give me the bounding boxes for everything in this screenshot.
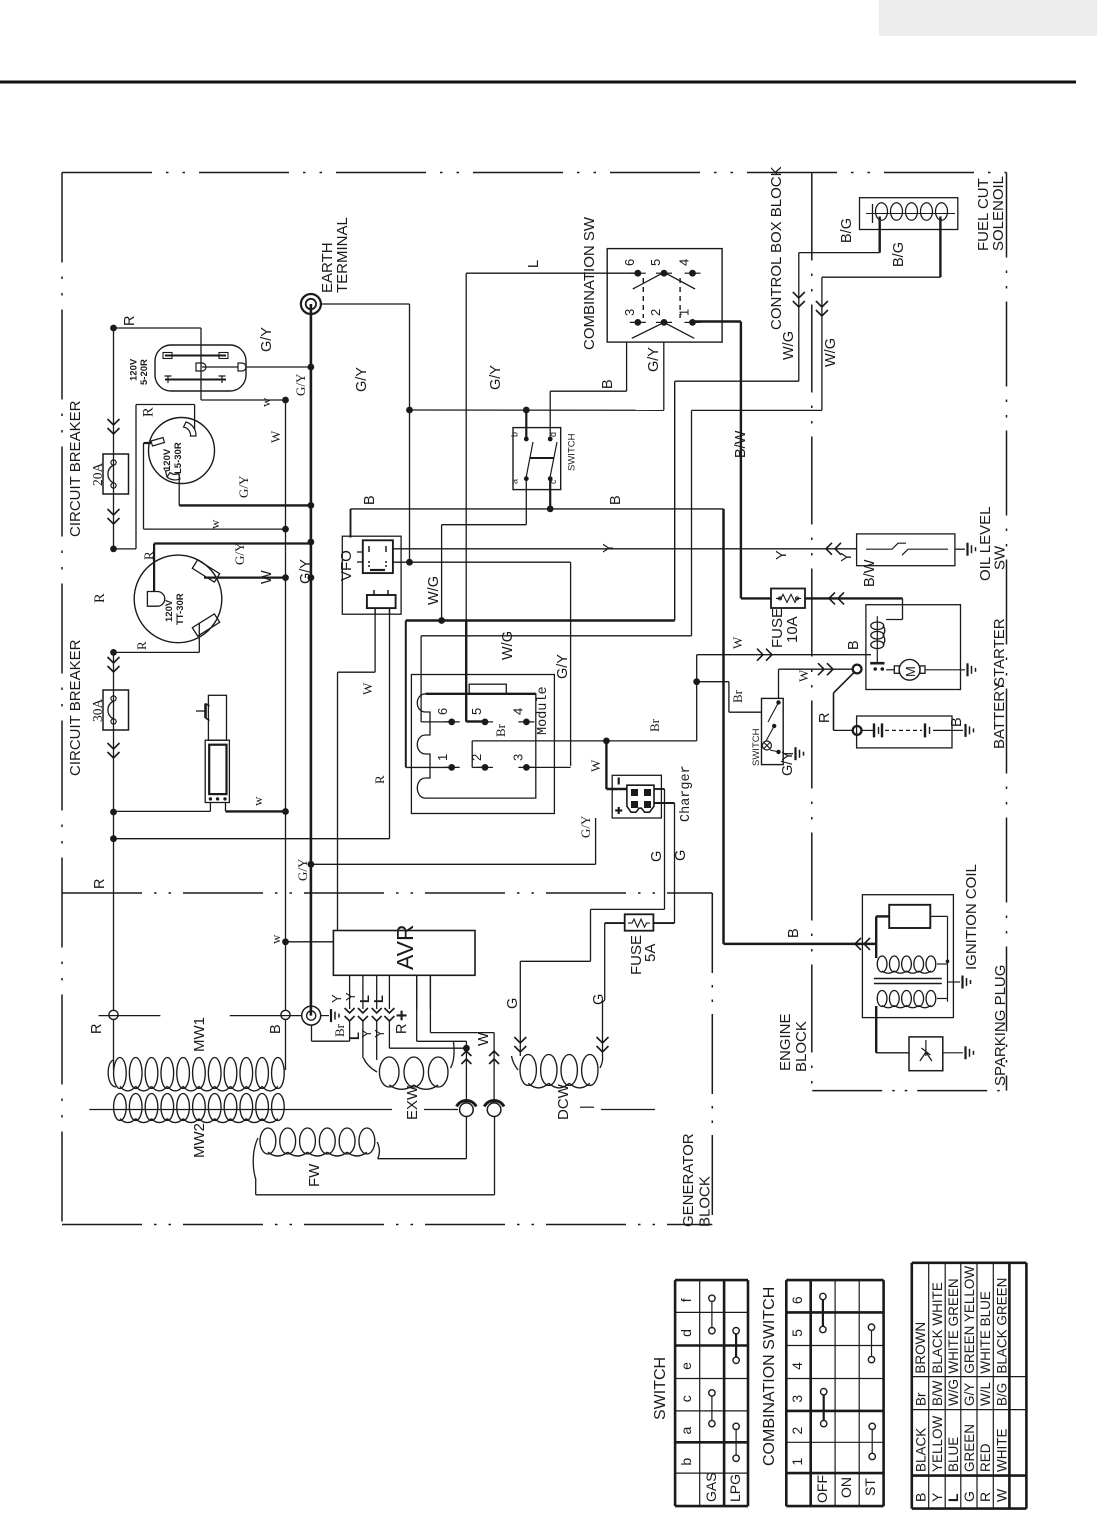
svg-text:G/Y: G/Y: [293, 373, 308, 396]
svg-text:10A: 10A: [784, 616, 801, 643]
svg-text:6: 6: [622, 259, 637, 266]
svg-text:IGNITION COIL: IGNITION COIL: [963, 864, 980, 970]
svg-text:L5-30R: L5-30R: [173, 442, 184, 474]
svg-text:BLUE: BLUE: [946, 1437, 961, 1472]
svg-text:W: W: [476, 1032, 492, 1046]
svg-text:G/Y: G/Y: [646, 347, 662, 372]
svg-text:B: B: [608, 495, 624, 505]
svg-text:Module: Module: [536, 686, 551, 735]
svg-text:W: W: [730, 636, 745, 649]
svg-text:B: B: [268, 1024, 284, 1034]
svg-text:L: L: [945, 1493, 961, 1502]
svg-text:4: 4: [511, 708, 526, 715]
svg-text:b: b: [510, 432, 520, 437]
svg-text:G/Y: G/Y: [488, 365, 504, 390]
svg-text:G: G: [673, 850, 689, 861]
svg-text:DCW: DCW: [555, 1083, 572, 1120]
svg-text:e: e: [678, 1362, 694, 1370]
svg-text:w: w: [207, 519, 222, 529]
svg-text:ON: ON: [838, 1477, 854, 1498]
svg-text:G/Y: G/Y: [962, 1383, 977, 1406]
svg-text:SPARKING PLUG: SPARKING PLUG: [992, 965, 1009, 1086]
svg-text:CONTROL BOX BLOCK: CONTROL BOX BLOCK: [768, 166, 785, 330]
svg-text:Br: Br: [493, 723, 508, 737]
svg-text:a: a: [510, 479, 520, 484]
svg-text:RED: RED: [978, 1443, 993, 1472]
svg-text:WHITE BLUE: WHITE BLUE: [978, 1291, 993, 1374]
svg-text:BROWN: BROWN: [913, 1322, 928, 1374]
svg-text:Y: Y: [774, 550, 790, 560]
svg-text:BLOCK: BLOCK: [793, 1021, 810, 1072]
svg-text:SWITCH: SWITCH: [567, 433, 578, 471]
svg-text:6: 6: [435, 708, 450, 715]
svg-text:120V: 120V: [164, 599, 175, 622]
svg-text:w: w: [258, 397, 273, 407]
svg-text:5-20R: 5-20R: [139, 359, 150, 385]
svg-text:R: R: [394, 1024, 410, 1034]
svg-text:R: R: [372, 775, 387, 784]
svg-text:120V: 120V: [129, 358, 140, 381]
svg-text:B: B: [362, 495, 378, 505]
svg-text:B/G: B/G: [891, 242, 907, 267]
svg-text:G: G: [505, 998, 521, 1009]
svg-text:B/W: B/W: [930, 1380, 945, 1406]
svg-text:4: 4: [789, 1362, 805, 1370]
svg-text:f: f: [678, 1298, 694, 1302]
svg-text:30A: 30A: [90, 699, 105, 723]
svg-text:1: 1: [677, 309, 692, 316]
svg-text:B: B: [600, 379, 616, 389]
svg-text:WHITE GREEN: WHITE GREEN: [946, 1278, 961, 1373]
svg-text:B/G: B/G: [839, 218, 855, 243]
svg-text:w: w: [250, 796, 265, 806]
svg-text:BLACK GREEN: BLACK GREEN: [994, 1278, 1009, 1374]
svg-text:Br: Br: [332, 1023, 347, 1037]
svg-text:5A: 5A: [642, 944, 659, 962]
svg-text:Y: Y: [929, 1492, 945, 1502]
svg-text:R: R: [92, 879, 108, 889]
svg-text:ST: ST: [862, 1478, 878, 1496]
svg-text:COMBINATION SW: COMBINATION SW: [581, 216, 598, 350]
svg-text:20A: 20A: [90, 463, 105, 487]
svg-text:W: W: [796, 669, 811, 682]
svg-text:EXW: EXW: [404, 1085, 421, 1120]
svg-text:G/Y: G/Y: [236, 475, 251, 498]
svg-text:G: G: [649, 851, 665, 862]
svg-text:Y: Y: [839, 552, 855, 562]
svg-text:Y: Y: [601, 543, 617, 553]
svg-text:STARTER: STARTER: [991, 618, 1008, 687]
svg-text:OFF: OFF: [814, 1475, 830, 1503]
svg-text:R: R: [141, 407, 157, 417]
svg-text:WHITE: WHITE: [994, 1429, 1009, 1473]
svg-text:R: R: [817, 713, 833, 723]
svg-text:BLACK WHITE: BLACK WHITE: [930, 1282, 945, 1374]
svg-text:W/G: W/G: [781, 331, 797, 360]
svg-text:B: B: [912, 1493, 928, 1502]
svg-text:Br: Br: [647, 718, 662, 732]
svg-text:L: L: [371, 995, 386, 1003]
svg-text:COMBINATION SWITCH: COMBINATION SWITCH: [761, 1287, 778, 1466]
svg-text:AVR: AVR: [392, 924, 418, 970]
svg-text:R: R: [977, 1492, 993, 1502]
svg-text:W: W: [993, 1488, 1009, 1502]
svg-text:M: M: [903, 666, 918, 677]
svg-text:G: G: [591, 994, 607, 1005]
svg-text:Br: Br: [730, 689, 745, 703]
svg-text:MW1: MW1: [191, 1017, 208, 1052]
svg-text:L: L: [357, 995, 372, 1003]
svg-text:3: 3: [622, 309, 637, 316]
svg-text:W: W: [588, 759, 603, 772]
svg-text:Y: Y: [329, 994, 344, 1003]
svg-text:Br: Br: [913, 1392, 928, 1406]
svg-text:W/G: W/G: [946, 1379, 961, 1406]
svg-text:BATTERY: BATTERY: [991, 681, 1008, 749]
svg-text:2: 2: [469, 754, 484, 761]
svg-text:MW2: MW2: [191, 1123, 208, 1158]
svg-text:B/G: B/G: [994, 1383, 1009, 1406]
svg-text:W: W: [268, 430, 283, 443]
svg-text:G/Y: G/Y: [259, 327, 275, 352]
svg-text:2: 2: [789, 1426, 805, 1434]
svg-text:GENERATOR: GENERATOR: [680, 1133, 697, 1227]
svg-text:CIRCUIT BREAKER: CIRCUIT BREAKER: [67, 639, 84, 776]
svg-text:1: 1: [435, 754, 450, 761]
svg-text:5: 5: [469, 708, 484, 715]
svg-text:4: 4: [677, 259, 692, 266]
svg-text:BLOCK: BLOCK: [697, 1176, 714, 1227]
svg-text:Y: Y: [343, 992, 358, 1001]
svg-text:G/Y: G/Y: [780, 751, 796, 776]
svg-text:Y: Y: [372, 1029, 387, 1038]
svg-text:B: B: [949, 717, 965, 727]
svg-text:G/Y: G/Y: [295, 858, 310, 881]
svg-text:SW: SW: [992, 545, 1009, 570]
svg-text:R: R: [89, 1024, 105, 1034]
svg-text:L: L: [526, 260, 542, 268]
svg-text:W/G: W/G: [426, 576, 442, 605]
svg-text:b: b: [678, 1458, 694, 1466]
svg-text:3: 3: [789, 1395, 805, 1403]
svg-text:TERMINAL: TERMINAL: [334, 217, 351, 293]
svg-text:SOLENOIL: SOLENOIL: [990, 176, 1007, 251]
svg-text:R: R: [92, 593, 108, 603]
svg-text:+: +: [392, 1010, 413, 1021]
svg-text:YELLOW: YELLOW: [930, 1415, 945, 1472]
svg-text:W/G: W/G: [823, 338, 839, 367]
svg-text:LPG: LPG: [727, 1474, 743, 1502]
svg-text:GAS: GAS: [703, 1472, 719, 1502]
svg-text:BLACK: BLACK: [913, 1428, 928, 1472]
svg-text:G/Y: G/Y: [354, 367, 370, 392]
svg-text:GREEN: GREEN: [962, 1424, 977, 1472]
svg-text:G/Y: G/Y: [578, 815, 593, 838]
svg-text:G/Y: G/Y: [232, 542, 247, 565]
svg-text:B/W: B/W: [733, 430, 749, 458]
svg-text:B: B: [786, 928, 802, 938]
svg-text:Charger: Charger: [679, 765, 694, 822]
svg-text:R: R: [134, 641, 149, 650]
svg-text:w: w: [268, 934, 283, 944]
svg-text:W: W: [259, 570, 275, 584]
svg-text:d: d: [548, 432, 558, 437]
svg-text:c: c: [678, 1395, 694, 1402]
svg-text:GREEN YELLOW: GREEN YELLOW: [962, 1266, 977, 1374]
svg-text:R: R: [141, 551, 156, 560]
svg-text:TT-30R: TT-30R: [175, 593, 186, 625]
svg-text:VFO: VFO: [338, 550, 355, 581]
svg-text:120V: 120V: [162, 448, 173, 471]
svg-text:W/L: W/L: [978, 1382, 993, 1406]
svg-text:6: 6: [789, 1296, 805, 1304]
svg-text:FW: FW: [306, 1163, 323, 1187]
svg-text:SWITCH: SWITCH: [652, 1357, 669, 1420]
svg-text:W/G: W/G: [500, 631, 516, 660]
svg-text:1: 1: [789, 1458, 805, 1466]
svg-text:R: R: [122, 316, 138, 326]
svg-text:W: W: [360, 682, 375, 695]
svg-text:B/W: B/W: [862, 559, 878, 587]
svg-text:B: B: [846, 640, 862, 650]
svg-text:CIRCUIT BREAKER: CIRCUIT BREAKER: [67, 400, 84, 537]
svg-text:G: G: [961, 1491, 977, 1502]
svg-text:SWITCH: SWITCH: [751, 728, 762, 766]
svg-text:2: 2: [648, 309, 663, 316]
svg-text:G/Y: G/Y: [555, 654, 571, 679]
svg-text:ENGINE: ENGINE: [777, 1013, 794, 1071]
svg-text:5: 5: [648, 259, 663, 266]
svg-text:3: 3: [511, 754, 526, 761]
svg-text:G/Y: G/Y: [298, 559, 314, 584]
svg-text:d: d: [678, 1329, 694, 1337]
svg-text:5: 5: [789, 1329, 805, 1337]
svg-text:a: a: [678, 1426, 694, 1434]
